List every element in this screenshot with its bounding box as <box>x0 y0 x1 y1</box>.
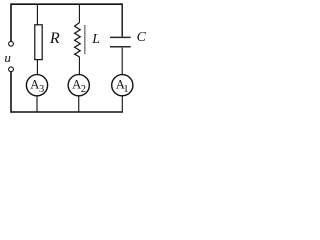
wire bottom bus <box>11 111 122 113</box>
wire C branch lower lead <box>121 48 123 75</box>
ammeter A3 <box>26 75 47 96</box>
terminal upper <box>9 41 14 46</box>
svg-text:R: R <box>49 30 60 47</box>
svg-text:3: 3 <box>39 84 44 95</box>
wire top bus <box>11 3 122 5</box>
resistor R <box>35 25 42 60</box>
wire A3 bottom lead <box>36 96 38 112</box>
ammeter A1 <box>112 75 133 96</box>
svg-text:2: 2 <box>81 84 86 95</box>
wire A1 bottom lead <box>121 96 123 113</box>
svg-text:u: u <box>4 50 11 65</box>
wire A2 bottom lead <box>78 96 80 112</box>
terminal lower <box>9 67 14 72</box>
capacitor C top plate <box>110 36 131 38</box>
inductor L core bar <box>84 25 86 54</box>
wire R branch top lead <box>36 4 38 25</box>
svg-text:C: C <box>137 30 147 45</box>
wire R branch lower lead <box>36 60 38 75</box>
wire L branch top lead <box>78 4 80 23</box>
wire left lower segment <box>10 72 12 113</box>
wire left upper segment <box>10 3 12 41</box>
wire L branch lower lead <box>78 57 80 75</box>
wire C branch top lead (right edge) <box>121 3 123 36</box>
capacitor C bottom plate <box>110 46 131 48</box>
svg-text:1: 1 <box>123 84 128 95</box>
ammeter A2 <box>68 75 89 96</box>
svg-text:L: L <box>91 32 100 47</box>
inductor L zigzag <box>75 23 81 57</box>
